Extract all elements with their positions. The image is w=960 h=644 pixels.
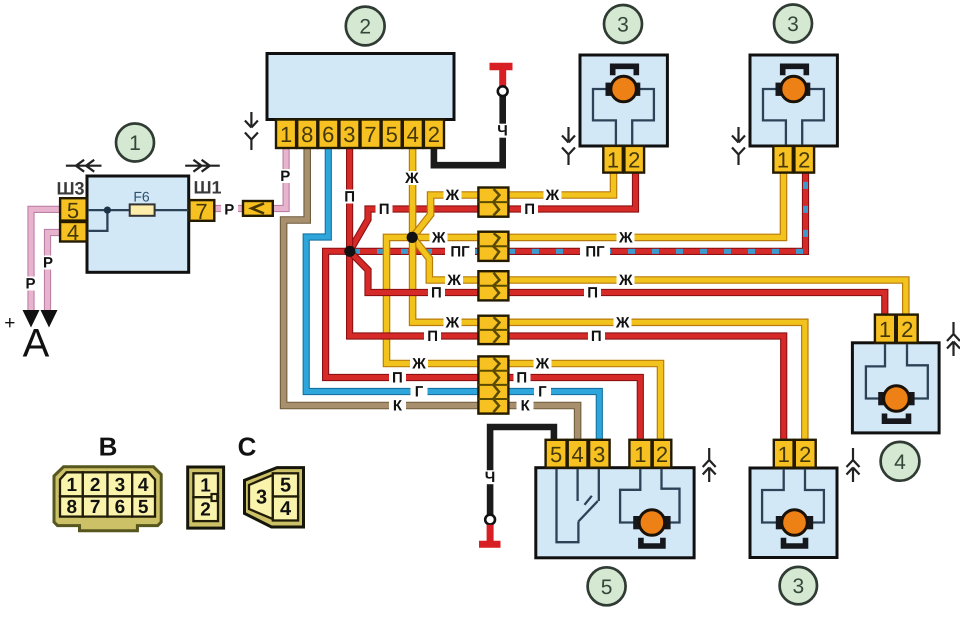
lamp 3a bulb [611,76,637,102]
junction splice yellow [407,232,418,243]
svg-text:3: 3 [787,13,799,36]
lamp 3c internal wires [762,468,824,523]
svg-text:2: 2 [628,148,640,173]
label Zh row5 left [410,357,428,371]
svg-text:F6: F6 [133,188,150,204]
svg-text:Ш3: Ш3 [56,178,84,198]
switch pin 4 [568,440,588,468]
svg-text:П: П [427,328,438,345]
wire P pink: fuse box pin5 to node A arrow [31,209,60,312]
ground symbol at lamp 3c [847,448,860,482]
ground symbol at lamp 4 [947,322,960,356]
svg-text:1: 1 [280,122,292,147]
wire P red: row4 right to lamp3b pin1 [508,336,784,441]
label Zh row3 right [617,273,635,287]
label Zh row5 right [534,357,552,371]
lamp 4 pin 2 [897,315,918,343]
lamp 3a pin 2 [624,146,644,173]
fuse box pin 5 [60,198,87,220]
label Zh row2 right [617,230,635,244]
connector view B cell 7 [83,496,108,516]
svg-text:3: 3 [617,14,629,37]
label P row1 right [521,202,538,216]
label Zh row1 left [444,188,462,202]
svg-text:1: 1 [129,132,141,155]
switch pin 1 [629,440,651,468]
plus terminal bottom: red stem [487,525,494,544]
plus terminal top: red bar [490,63,513,71]
wire Zh yellow: splice to connector row1 [413,195,478,237]
svg-text:П: П [392,370,403,387]
callout circle 2 [346,7,385,46]
wire K brown: relay pin8 to connector row5 [284,148,478,406]
wire PG red-blue: connector row2 to lamp2 pin2 [508,171,806,251]
connector block row2 body [478,232,508,261]
svg-text:3: 3 [792,575,804,598]
svg-text:Ж: Ж [618,230,633,247]
lamp 4 reflector bracket [885,414,909,422]
wire K brown: connector row5 to switch pin4 [508,406,578,442]
switch lamp reflector bracket [641,538,663,546]
relay connector strip pin 8 [297,120,317,149]
switch lamp bulb contacts [633,516,640,529]
svg-text:5: 5 [601,576,613,599]
plus terminal top: ring [498,86,508,96]
connector view B body [54,467,161,531]
connector view B cell 1 [60,472,83,496]
svg-text:6: 6 [115,497,126,518]
node A arrowhead 1 [23,310,40,328]
wire Zh yellow: splice to connector row3 [413,237,478,280]
label Zh row3 left [445,273,463,287]
relay U2 body [267,54,454,120]
wire PG red-blue: splice to connector row2 [350,248,478,255]
relay connector strip pin 7 [361,120,381,149]
svg-text:4: 4 [138,475,149,496]
connector X1 pink single-pin [243,201,273,216]
svg-text:В: В [99,432,118,462]
fuse box internal wire [87,210,190,231]
svg-text:5: 5 [67,198,79,223]
wire Ch black: switch pin5 to plus terminal [490,427,554,515]
lamp 4 internal wires [866,343,928,399]
svg-text:4: 4 [571,442,583,467]
svg-text:2: 2 [798,148,810,173]
connector block row4 body [478,316,508,344]
svg-text:2: 2 [799,442,811,467]
svg-text:7: 7 [364,122,376,147]
plus terminal top: red stem [499,67,506,87]
lamp 3c bulb [782,510,808,536]
ground symbol at relay strip [245,112,258,150]
svg-text:5: 5 [386,122,398,147]
wire P pink: fuse box pin4 to node A arrow [48,233,61,313]
connector view C1 body [188,467,224,528]
wire G light-blue: relay pin6 to connector row5 [306,148,478,392]
svg-text:2: 2 [200,499,211,520]
plus terminal bottom: red bar [479,541,501,548]
wire Zh yellow: relay pin4 to splice [409,148,417,237]
svg-text:Ж: Ж [445,314,460,331]
label K row5 right [517,399,534,413]
svg-text:Р: Р [43,255,53,272]
svg-text:Р: Р [25,276,35,293]
switch blade [578,496,597,522]
svg-text:3: 3 [115,475,126,496]
svg-text:4: 4 [280,498,292,520]
relay connector strip pin 1 [276,120,296,149]
arrow out left of fuse box [66,160,102,172]
svg-text:С: С [238,432,257,462]
lamp 3b reflector bracket [783,66,807,75]
wire P red: row3 right to lamp4 pin1 [508,293,885,317]
ground symbol at lamp 3b [732,127,745,165]
label PG row2 right [580,244,610,258]
svg-text:Ж: Ж [446,272,461,289]
connector view B cell 5 [132,496,155,516]
connector view C1 cell 2 [193,497,218,521]
label Ch on black riser top [494,124,511,138]
fuse box U1 body [87,176,189,272]
svg-text:Ж: Ж [445,187,460,204]
svg-text:7: 7 [90,497,101,518]
svg-text:3: 3 [343,122,355,147]
lamp 3a reflector bracket [613,66,637,75]
label Zh row1 right [544,188,562,202]
connector view B cell 6 [108,496,133,516]
wire Zh yellow: splice to connector row2 [413,234,478,242]
svg-text:П: П [431,285,442,302]
wire P pink: fuse box pin7 to connector X1 [214,205,243,212]
relay connector strip pin 3 [339,120,359,149]
junction splice red [344,246,355,257]
connector view C2 cell 3 [249,475,273,519]
ground symbol at switch 5 [703,448,716,482]
svg-text:Ж: Ж [431,230,446,247]
ground symbol at lamp 3a [562,127,575,165]
relay connector strip pin 2 [424,120,444,149]
switch pin 3 [589,440,610,468]
wire P red: relay pin3 down through splice to row4 [350,148,478,336]
wire Zh yellow: row2 right to lamp2 pin1 [508,171,784,237]
wire P red: row5 right to switch pin1 [508,378,640,442]
relay connector strip pin 6 [318,120,338,149]
switch lamp bulb [639,510,665,536]
rear lamp 3c body [750,468,837,558]
lamp 3a (front left turn lamp) body [580,55,667,146]
label P row4 right [588,329,605,343]
connector block row1 body [478,188,508,217]
label Ch on black riser bottom [482,470,499,484]
svg-text:П: П [587,285,598,302]
lamp 3b pin 2 [794,146,814,173]
svg-text:2: 2 [359,16,371,39]
svg-text:Ж: Ж [535,356,550,373]
svg-text:Г: Г [415,384,424,401]
connector block row3 body [478,271,508,300]
svg-text:П: П [379,201,390,218]
callout circle 3 front-left [604,5,642,43]
connector view C1 key tab [212,494,218,501]
label P row3 left [428,286,445,300]
callout circle 1 [116,124,154,162]
switch internal contact lines [557,468,599,543]
callout circle 4 [881,442,920,481]
svg-text:+: + [4,313,15,334]
wire P pink: connector X1 to relay pin1 [273,148,286,209]
svg-text:4: 4 [894,451,906,474]
svg-text:1: 1 [778,442,790,467]
lamp 3a bulb contacts [606,83,613,96]
connector view C2 cell 4 [273,497,298,521]
wire Ch black: relay pin2 to plus terminal [434,96,503,165]
label P row5 right [514,371,531,385]
lamp 3b pin 1 [773,146,793,173]
wire Zh yellow: row1 right to lamp1 pin1 [508,171,614,195]
svg-text:1: 1 [67,475,78,496]
lamp 3c reflector bracket [784,538,806,546]
svg-text:Ж: Ж [411,356,426,373]
label K row5 left [389,399,406,413]
svg-text:2: 2 [901,317,913,342]
lamp 3c pin 2 [795,440,816,468]
relay connector strip pin 4 [403,120,423,149]
svg-text:Ж: Ж [545,187,560,204]
wire Zh yellow: row4 right to lamp3b pin2 [508,322,805,441]
svg-text:Г: Г [538,384,547,401]
label P on pink riser [277,169,294,183]
label P on pink wire at connector X1 [221,202,238,216]
svg-text:ПГ: ПГ [585,244,605,261]
svg-text:П: П [344,189,355,206]
svg-text:Р: Р [224,202,234,219]
lamp 4 pin 1 [875,315,895,343]
label Zh on yellow riser [403,171,421,185]
label P row4 left [424,329,441,343]
svg-text:3: 3 [593,442,605,467]
svg-text:1: 1 [777,148,789,173]
relay connector strip pin 5 [382,120,402,149]
plus terminal bottom: ring [485,515,495,525]
connector view B cell 2 [83,472,108,496]
svg-text:4: 4 [407,122,419,147]
svg-text:А: А [23,322,50,366]
label P on red riser [341,190,358,204]
svg-text:4: 4 [67,220,79,245]
svg-text:П: П [524,201,535,218]
switch unit 5 body [536,468,694,558]
wire P red: splice to connector row3 [350,251,478,292]
lamp 3c pin 1 [774,440,794,468]
lamp 3b bulb [781,76,807,102]
connector view B cell 8 [60,496,83,516]
svg-text:Ч: Ч [497,123,508,140]
label P on pink wire A2 [40,256,57,270]
connector view B cell 4 [132,472,155,496]
svg-text:1: 1 [634,442,646,467]
svg-text:2: 2 [656,442,668,467]
svg-text:1: 1 [607,148,619,173]
wire P red: row1 left segment to splice [350,209,478,251]
node A arrowhead 2 [41,310,58,328]
arrow out right of fuse box [185,160,220,172]
wire Zh yellow: row5 right to switch pin2 [508,364,661,442]
label G row5 right [534,385,551,399]
svg-text:Ш1: Ш1 [193,177,221,197]
wire P red: splice left branch to connector row5 [326,251,478,377]
svg-text:Р: Р [280,168,290,185]
svg-text:Ж: Ж [618,272,633,289]
switch pin 5 [546,440,567,468]
connector block row5 body [478,356,508,413]
svg-text:К: К [521,398,531,415]
svg-text:2: 2 [90,475,101,496]
svg-text:ПГ: ПГ [450,244,470,261]
switch pin 2 [653,440,672,468]
svg-text:П: П [516,370,527,387]
label P row3 right [584,286,601,300]
svg-text:5: 5 [138,497,149,518]
fuse box pin 4 [60,222,87,242]
lamp 3a internal wires [593,89,654,146]
lamp 4 bulb contacts [878,392,885,405]
label G row5 left [411,385,428,399]
lamp 3b (front right turn lamp) body [750,55,837,146]
wire Zh yellow: splice to connector row5 [387,237,479,363]
label P row5 left [389,371,406,385]
svg-text:Ж: Ж [615,314,630,331]
callout circle 3 front-right [774,5,812,43]
fuse F6 body [130,204,155,215]
label P row1 left [376,202,393,216]
svg-text:2: 2 [428,122,440,147]
connector view C1 cell 1 [193,473,218,497]
fuse box pin 7 [189,200,214,221]
svg-text:Ж: Ж [404,170,419,187]
label P on pink wire A1 [22,277,39,291]
label Zh row4 left [444,315,462,329]
connector view C2 cell 5 [273,473,298,496]
wire P red: row1 right segment to lamp1 pin2 [508,171,636,209]
svg-text:П: П [591,328,602,345]
svg-text:1: 1 [879,317,891,342]
svg-text:Ч: Ч [485,469,496,486]
svg-text:К: К [393,398,403,415]
label Zh row4 right [614,315,632,329]
lamp 3b bulb contacts [776,83,783,96]
connector view B cell 3 [108,472,133,496]
lamp 3c bulb contacts [776,516,783,529]
lamp 3b internal wires [763,89,824,146]
svg-text:5: 5 [550,442,562,467]
fuse box internal junction [104,207,111,214]
svg-text:7: 7 [195,199,207,224]
switch lamp internal wires [620,468,679,523]
wire Zh yellow: splice to connector row4 [413,237,478,322]
svg-text:3: 3 [256,487,267,509]
lamp 4 bulb [884,386,910,412]
label PG row2 left [445,244,475,258]
label Zh row2 left [430,230,448,244]
svg-text:5: 5 [280,475,291,497]
wire G light-blue: connector row5 to switch pin3 [508,392,599,442]
lamp 3a pin 1 [603,146,623,173]
svg-text:8: 8 [67,497,78,518]
connector view C2 body [245,468,304,527]
callout circle 5 [588,567,626,605]
side lamp 4 body [852,343,939,433]
wire Zh yellow: row3 right to lamp4 pin2 [508,280,906,316]
svg-text:8: 8 [301,122,313,147]
callout circle 3 rear [780,567,817,604]
svg-text:1: 1 [200,476,211,497]
svg-text:6: 6 [322,122,334,147]
